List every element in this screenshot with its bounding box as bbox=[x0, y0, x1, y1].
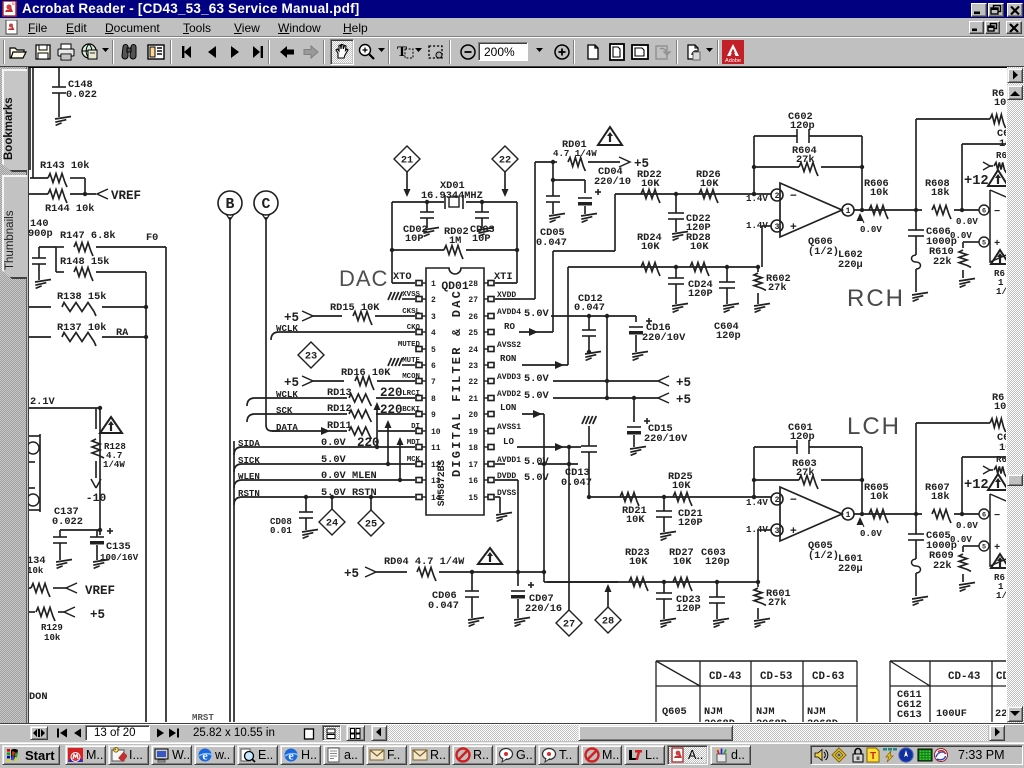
svg-text:RD12: RD12 bbox=[327, 403, 352, 415]
svg-text:120p: 120p bbox=[790, 120, 815, 132]
pin 27 QD01 bbox=[488, 297, 494, 302]
capacitor C135 bbox=[90, 536, 104, 538]
title window buttons bbox=[971, 3, 987, 17]
svg-text:21: 21 bbox=[401, 155, 413, 167]
op-amp Q605 (1/2) bbox=[780, 487, 842, 541]
svg-text:+12: +12 bbox=[964, 478, 989, 493]
svg-text:10k: 10k bbox=[870, 491, 889, 503]
svg-text:CKSL: CKSL bbox=[402, 308, 420, 316]
h scroll thumb bbox=[578, 725, 733, 741]
menu window buttons bbox=[969, 21, 984, 34]
svg-text:6: 6 bbox=[982, 512, 986, 520]
wire feedback verticals LCH bbox=[753, 447, 755, 497]
resistor R602 bbox=[757, 267, 759, 272]
svg-text:24: 24 bbox=[468, 346, 478, 355]
pin 22 QD01 bbox=[488, 379, 494, 384]
warning triangle +12 LCH bbox=[988, 474, 1008, 490]
resistor R610 bbox=[963, 241, 973, 243]
capacitor C605 bbox=[915, 514, 917, 534]
slash ground AVSS1 bbox=[582, 416, 586, 424]
wire node C vertical bbox=[265, 217, 267, 425]
start button bbox=[2, 745, 60, 765]
svg-text:RCH: RCH bbox=[847, 285, 905, 312]
capacitor CD13 bbox=[581, 445, 597, 447]
pin 6 QD01 bbox=[416, 363, 422, 368]
node VREF upper bbox=[83, 192, 87, 196]
svg-text:23: 23 bbox=[468, 362, 478, 371]
svg-text:22: 22 bbox=[995, 708, 1006, 720]
svg-text:R143 10k: R143 10k bbox=[40, 160, 89, 172]
title bar bbox=[0, 0, 1024, 18]
task button R.. bbox=[452, 745, 493, 765]
svg-text:0.0V: 0.0V bbox=[860, 224, 882, 235]
task button M.. bbox=[65, 745, 106, 765]
resistor R144 bbox=[29, 193, 48, 195]
wire left edge pair bbox=[29, 68, 31, 170]
svg-text:e: e bbox=[288, 749, 294, 763]
svg-text:5.0V: 5.0V bbox=[524, 308, 550, 320]
capacitor C604 bbox=[726, 267, 728, 282]
svg-text:18: 18 bbox=[468, 444, 478, 453]
pin 5 QD01 bbox=[416, 347, 422, 352]
svg-text:VREF: VREF bbox=[85, 584, 115, 598]
svg-text:XTO: XTO bbox=[393, 271, 412, 283]
v scroll thumb bbox=[1007, 474, 1023, 486]
svg-text:DIGITAL FILTER & DAC: DIGITAL FILTER & DAC bbox=[450, 289, 464, 477]
svg-text:−: − bbox=[790, 191, 797, 203]
wire second feedback RCH bbox=[961, 144, 963, 210]
resistor VREF row bbox=[29, 587, 31, 589]
svg-text:AVDD3: AVDD3 bbox=[497, 373, 521, 382]
diamond node 25 bbox=[370, 497, 372, 511]
pin 10 QD01 bbox=[416, 429, 422, 434]
capacitor CD23 bbox=[663, 582, 665, 593]
ground CD07 bbox=[514, 618, 530, 621]
svg-text:12: 12 bbox=[431, 461, 441, 470]
toolbar bbox=[0, 37, 1024, 67]
svg-text:16: 16 bbox=[468, 477, 478, 486]
svg-text:8: 8 bbox=[431, 395, 436, 404]
wire AVDD2 +5 bbox=[553, 397, 658, 399]
pin 11 QD01 bbox=[416, 445, 422, 450]
wire row A LCH bbox=[589, 496, 771, 498]
svg-text:(1/2): (1/2) bbox=[808, 246, 839, 258]
resistor R604 bbox=[754, 166, 799, 168]
svg-text:900p: 900p bbox=[28, 228, 53, 240]
svg-text:MUTED: MUTED bbox=[398, 341, 421, 349]
svg-text:1/4W: 1/4W bbox=[103, 459, 125, 470]
svg-text:1.4V: 1.4V bbox=[746, 193, 768, 204]
sidebar tab strip bbox=[0, 67, 27, 723]
pin 2 QD01 bbox=[416, 297, 422, 302]
resistor R603 bbox=[754, 479, 799, 481]
svg-text:28: 28 bbox=[602, 616, 614, 628]
svg-text:220/16: 220/16 bbox=[525, 603, 562, 615]
resistor edge mid LCH bbox=[983, 466, 990, 474]
task button a.. bbox=[323, 745, 364, 765]
pin 24 QD01 bbox=[488, 347, 494, 352]
svg-text:5: 5 bbox=[431, 346, 436, 355]
task button R.. bbox=[409, 745, 450, 765]
svg-text:2: 2 bbox=[775, 192, 780, 201]
pin 4 QD01 bbox=[416, 330, 422, 335]
op-amp Q606 (1/2) bbox=[780, 183, 842, 237]
svg-text:120p: 120p bbox=[790, 431, 815, 443]
svg-text:27: 27 bbox=[563, 619, 575, 631]
svg-text:0.047: 0.047 bbox=[561, 477, 592, 489]
op-amp chip QD01 SM5872BS bbox=[426, 268, 484, 515]
svg-text:5.0V: 5.0V bbox=[321, 454, 347, 466]
svg-text:R147 6.8k: R147 6.8k bbox=[60, 230, 116, 242]
svg-text:6: 6 bbox=[982, 208, 986, 216]
warning triangle RD01 bbox=[598, 127, 622, 145]
svg-text:27: 27 bbox=[468, 296, 478, 305]
svg-text:1.4V: 1.4V bbox=[746, 524, 768, 535]
svg-text:MCON: MCON bbox=[402, 373, 420, 381]
wire row B to pin3 bbox=[761, 226, 763, 267]
svg-text:RD11: RD11 bbox=[327, 420, 352, 432]
svg-text:220/10: 220/10 bbox=[594, 176, 631, 188]
pin 8 QD01 bbox=[416, 396, 422, 401]
svg-text:R144 10k: R144 10k bbox=[45, 203, 94, 215]
supply +5 RD01 bbox=[619, 157, 630, 167]
svg-text:0.0V: 0.0V bbox=[956, 520, 978, 531]
svg-text:CD-63: CD-63 bbox=[812, 671, 844, 683]
ground CD05 bbox=[549, 214, 565, 217]
svg-text:18k: 18k bbox=[931, 491, 950, 503]
capacitor CD05 bbox=[552, 162, 554, 196]
svg-text:1/4: 1/4 bbox=[996, 590, 1006, 601]
pin 18 QD01 bbox=[488, 445, 494, 450]
capacitor C148 bbox=[58, 68, 60, 87]
svg-text:+: + bbox=[994, 542, 1000, 554]
wire RO to row A bbox=[552, 251, 554, 332]
svg-text:1: 1 bbox=[846, 207, 851, 216]
resistor R609 bbox=[963, 545, 973, 547]
svg-text:0.047: 0.047 bbox=[574, 302, 605, 314]
table C611 variants bbox=[890, 660, 1006, 662]
svg-text:CKO: CKO bbox=[407, 324, 421, 332]
inductor L601 bbox=[912, 559, 921, 573]
svg-text:+5: +5 bbox=[676, 376, 691, 390]
svg-text:DAC: DAC bbox=[339, 266, 388, 291]
status bar bbox=[0, 723, 1024, 742]
resistor R129 bbox=[29, 611, 35, 613]
pin 12 QD01 bbox=[416, 462, 422, 467]
svg-text:10: 10 bbox=[999, 442, 1006, 454]
svg-text:13: 13 bbox=[431, 477, 441, 486]
pin 25 QD01 bbox=[488, 330, 494, 335]
svg-text:2068D: 2068D bbox=[807, 718, 838, 722]
svg-text:25: 25 bbox=[468, 329, 478, 338]
svg-text:15: 15 bbox=[468, 494, 478, 503]
svg-text:0.0V: 0.0V bbox=[321, 470, 347, 482]
warning triangle low LCH bbox=[991, 554, 1009, 568]
svg-text:27k: 27k bbox=[768, 597, 787, 609]
ground CD08 bbox=[302, 530, 318, 533]
ground CD12 bbox=[585, 352, 601, 355]
svg-text:−: − bbox=[994, 510, 1000, 522]
svg-text:1: 1 bbox=[431, 280, 436, 289]
wire output RCH bbox=[854, 209, 922, 211]
svg-text:+: + bbox=[790, 222, 797, 234]
ground 900p bbox=[35, 280, 51, 283]
svg-text:10: 10 bbox=[994, 97, 1006, 109]
svg-text:28: 28 bbox=[468, 280, 478, 289]
svg-text:MDT: MDT bbox=[407, 439, 421, 447]
slash ground pin6 bbox=[402, 364, 415, 366]
warning triangle R128 bbox=[100, 417, 122, 433]
svg-text:22: 22 bbox=[468, 378, 478, 387]
svg-text:Adobe: Adobe bbox=[725, 58, 741, 64]
svg-text:10: 10 bbox=[431, 428, 441, 437]
svg-text:10K: 10K bbox=[629, 556, 648, 568]
svg-text:R138 15k: R138 15k bbox=[57, 291, 106, 303]
svg-text:DON: DON bbox=[29, 691, 48, 703]
task button H.. bbox=[280, 745, 321, 765]
svg-text:−: − bbox=[790, 495, 797, 507]
diamond node 23 bbox=[298, 342, 324, 368]
task button w.. bbox=[194, 745, 235, 765]
wire crystal box left bbox=[391, 202, 393, 283]
wire AVDD4 row bbox=[551, 315, 636, 317]
svg-text:20: 20 bbox=[468, 411, 478, 420]
svg-text:DI: DI bbox=[411, 423, 420, 431]
svg-text:0.022: 0.022 bbox=[52, 516, 83, 528]
svg-text:0.0V: 0.0V bbox=[321, 437, 347, 449]
svg-text:(1/2): (1/2) bbox=[808, 550, 839, 562]
capacitor CD04 bbox=[553, 179, 585, 181]
svg-text:0.01: 0.01 bbox=[270, 525, 292, 536]
svg-text:5.0V: 5.0V bbox=[524, 472, 550, 484]
ground CD06 bbox=[468, 618, 484, 621]
svg-text:16.9344MHZ: 16.9344MHZ bbox=[421, 190, 483, 202]
svg-text:Q605: Q605 bbox=[662, 706, 687, 718]
svg-text:RON: RON bbox=[500, 353, 516, 364]
slash ground pin2 bbox=[402, 298, 415, 300]
svg-text:17: 17 bbox=[468, 461, 478, 470]
svg-text:MLEN: MLEN bbox=[352, 470, 377, 482]
wire F0 vertical bbox=[165, 247, 167, 722]
ground C135 bbox=[93, 560, 109, 563]
svg-text:10K: 10K bbox=[626, 514, 645, 526]
svg-text:1.4V: 1.4V bbox=[746, 497, 768, 508]
wire row A RCH bbox=[615, 193, 771, 195]
svg-text:MRST: MRST bbox=[192, 712, 214, 722]
svg-text:BCKI: BCKI bbox=[402, 406, 420, 414]
svg-text:22k: 22k bbox=[933, 560, 952, 572]
wire top feedback RCH bbox=[915, 119, 917, 210]
resistor R601 bbox=[757, 582, 759, 587]
svg-text:10k: 10k bbox=[870, 187, 889, 199]
ground C148 bbox=[55, 117, 71, 120]
pin 19 QD01 bbox=[488, 429, 494, 434]
svg-text:10K: 10K bbox=[673, 556, 692, 568]
pin 21 QD01 bbox=[488, 396, 494, 401]
task button L.. bbox=[624, 745, 665, 765]
svg-text:LON: LON bbox=[500, 402, 516, 413]
wire row B LCH bbox=[547, 581, 758, 583]
wire node B vertical bbox=[229, 217, 231, 722]
svg-text:5.0V: 5.0V bbox=[524, 390, 550, 402]
svg-text:10K: 10K bbox=[641, 241, 660, 253]
svg-text:MCK: MCK bbox=[407, 456, 421, 464]
resistor R128 bbox=[95, 408, 97, 429]
svg-text:-10: -10 bbox=[86, 493, 107, 505]
svg-text:0.0V: 0.0V bbox=[860, 528, 882, 539]
task button M.. bbox=[581, 745, 622, 765]
task button d.. bbox=[710, 745, 751, 765]
capacitor C606 bbox=[915, 210, 917, 230]
svg-text:RD16 10K: RD16 10K bbox=[341, 367, 391, 379]
svg-text:220: 220 bbox=[380, 403, 403, 417]
capacitor CD08 bbox=[304, 495, 308, 499]
taskbar bbox=[0, 742, 1024, 768]
svg-text:10K: 10K bbox=[700, 178, 719, 190]
svg-text:T: T bbox=[397, 44, 407, 60]
capacitor CD24 bbox=[675, 267, 677, 278]
wire 2.1V row bbox=[29, 407, 100, 409]
pin 23 QD01 bbox=[488, 363, 494, 368]
ground CD02 bbox=[423, 228, 439, 231]
pin 20 QD01 bbox=[488, 412, 494, 417]
wire RON to row B bbox=[567, 267, 569, 365]
wire AVDD3 +5 bbox=[553, 380, 658, 382]
svg-text:100/16V: 100/16V bbox=[100, 552, 139, 563]
task button T.. bbox=[538, 745, 579, 765]
svg-text:10: 10 bbox=[994, 401, 1006, 413]
tab Bookmarks bbox=[2, 69, 27, 172]
svg-text:120p: 120p bbox=[705, 556, 730, 568]
svg-text:AVDD2: AVDD2 bbox=[497, 390, 521, 399]
svg-text:AVSS2: AVSS2 bbox=[497, 341, 521, 350]
svg-text:27k: 27k bbox=[796, 154, 815, 166]
op-amp second stage LCH bbox=[979, 509, 989, 519]
svg-text:NJM: NJM bbox=[807, 706, 826, 718]
ground CD03 bbox=[478, 228, 494, 231]
task button F.. bbox=[366, 745, 407, 765]
svg-text:e: e bbox=[202, 749, 208, 763]
wire LO pin18 bbox=[517, 446, 581, 448]
wire R148 vertical bbox=[145, 272, 147, 722]
diamond node 24 bbox=[331, 497, 333, 510]
svg-text:100UF: 100UF bbox=[936, 708, 967, 720]
svg-text:22: 22 bbox=[499, 155, 511, 167]
svg-text:0.047: 0.047 bbox=[428, 600, 459, 612]
svg-text:+: + bbox=[790, 526, 797, 538]
svg-text:220/10V: 220/10V bbox=[642, 332, 686, 344]
svg-text:5: 5 bbox=[982, 240, 986, 248]
svg-text:120P: 120P bbox=[688, 288, 713, 300]
svg-text:0.0V: 0.0V bbox=[956, 216, 978, 227]
svg-text:RD13: RD13 bbox=[327, 387, 352, 399]
svg-text:3: 3 bbox=[775, 527, 780, 536]
svg-text:120P: 120P bbox=[676, 603, 701, 615]
svg-text:5.0V: 5.0V bbox=[524, 456, 550, 468]
svg-text:18k: 18k bbox=[931, 187, 950, 199]
wire SIDA bus vertical bbox=[233, 441, 235, 722]
svg-text:NJM: NJM bbox=[756, 706, 775, 718]
pin 9 QD01 bbox=[416, 412, 422, 417]
svg-text:10k: 10k bbox=[28, 565, 44, 576]
pin 7 QD01 bbox=[416, 379, 422, 384]
wire crystal box right bbox=[516, 202, 518, 283]
svg-text:C613: C613 bbox=[897, 709, 922, 721]
task button A.. bbox=[667, 745, 708, 765]
svg-text:4: 4 bbox=[431, 329, 436, 338]
svg-text:0.0V: 0.0V bbox=[950, 230, 972, 241]
svg-text:LO: LO bbox=[503, 436, 514, 447]
svg-text:R148 15k: R148 15k bbox=[60, 256, 109, 268]
wire XVDD supply bbox=[495, 298, 520, 300]
task button I... bbox=[108, 745, 149, 765]
pin 15 QD01 bbox=[488, 495, 494, 500]
svg-text:220µ: 220µ bbox=[838, 259, 863, 271]
svg-text:+5: +5 bbox=[344, 567, 359, 581]
menu bar bbox=[0, 18, 1024, 36]
svg-text:25: 25 bbox=[365, 519, 377, 531]
capacitor CD21 bbox=[663, 497, 665, 511]
warning triangle low RCH bbox=[991, 250, 1009, 264]
wire +5 rows vertical bbox=[606, 316, 608, 398]
svg-text:27k: 27k bbox=[768, 282, 787, 294]
ground CD15 bbox=[630, 447, 646, 450]
warning triangle +12 RCH bbox=[988, 170, 1008, 186]
diamond node 21 bbox=[394, 146, 420, 172]
svg-text:VREF: VREF bbox=[111, 189, 141, 203]
capacitor C603 bbox=[716, 582, 718, 597]
vertical scrollbar bbox=[1007, 67, 1024, 723]
system tray bbox=[810, 745, 1023, 765]
svg-text:R6: R6 bbox=[996, 150, 1006, 161]
svg-text:10k: 10k bbox=[44, 632, 61, 643]
capacitor C601 bbox=[754, 446, 797, 448]
svg-text:CD-43: CD-43 bbox=[709, 671, 741, 683]
svg-text:+5: +5 bbox=[676, 393, 691, 407]
svg-text:0.022: 0.022 bbox=[66, 89, 97, 101]
node -10 bbox=[95, 461, 97, 478]
capacitor CD06 bbox=[471, 572, 473, 591]
svg-text:6: 6 bbox=[431, 362, 436, 371]
task button E.. bbox=[237, 745, 278, 765]
svg-text:23: 23 bbox=[305, 351, 317, 363]
svg-text:+: + bbox=[994, 238, 1000, 250]
svg-text:F0: F0 bbox=[146, 232, 158, 244]
wire AVDD1 to RD04 bbox=[538, 463, 578, 465]
svg-text:T: T bbox=[870, 751, 876, 762]
capacitor CD16 bbox=[635, 316, 637, 322]
svg-text:2: 2 bbox=[775, 496, 780, 505]
capacitor CD15 bbox=[633, 398, 635, 422]
table Q605 variants bbox=[656, 660, 857, 662]
svg-text:10K: 10K bbox=[672, 480, 691, 492]
svg-text:CD: CD bbox=[996, 671, 1006, 683]
svg-text:24: 24 bbox=[326, 518, 338, 530]
svg-text:2068D: 2068D bbox=[704, 718, 735, 722]
svg-text:R6: R6 bbox=[996, 454, 1006, 465]
svg-text:3: 3 bbox=[431, 313, 436, 322]
svg-text:1: 1 bbox=[846, 511, 851, 520]
wire LON vertical bbox=[543, 414, 545, 582]
pin 1 QD01 bbox=[416, 281, 422, 286]
warning triangle RD04 bbox=[478, 548, 502, 564]
resistor edge mid RCH bbox=[983, 162, 990, 170]
svg-text:2.1V: 2.1V bbox=[30, 396, 56, 408]
capacitor CD02 bbox=[425, 200, 429, 204]
svg-text:LCH: LCH bbox=[847, 413, 901, 440]
svg-text:5.0V: 5.0V bbox=[524, 373, 550, 385]
svg-text:2068D: 2068D bbox=[756, 718, 787, 722]
